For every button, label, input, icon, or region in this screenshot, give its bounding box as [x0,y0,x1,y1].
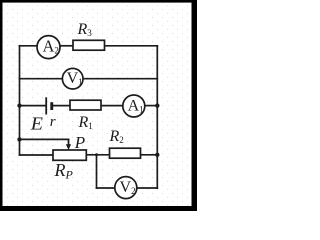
battery E short thick plate [50,102,53,110]
wire row3 bus to battery [20,105,46,107]
ammeter A1 [123,95,145,117]
node dot left bus wiper row [17,137,21,141]
border frame bottom [0,206,197,211]
wire row2 left (bus to V1) [20,78,63,80]
svg-text:P: P [74,133,85,152]
node dot right bus R2 row [155,153,159,157]
ammeter A2 [37,36,60,59]
wire V2 row left [97,187,115,189]
wire V1 to right bus [83,78,157,80]
wire A1 to right bus [145,105,158,107]
node dot right bus A1 row [155,103,159,107]
wire right bus [156,46,158,188]
wire R1 to A1 [101,105,123,107]
wire V2 to right bus [137,187,158,189]
wire R2 to right bus [140,154,157,156]
border frame top [0,0,197,3]
wire wiper horizontal [20,138,69,140]
node dot T junction pot/R2/V2 [95,153,98,156]
voltmeter V1 [62,68,83,89]
svg-text:r: r [50,114,56,130]
wire row1 left (corner to A2) [20,45,38,47]
wire battery to R1 [53,105,70,107]
wire V2 branch vertical [96,155,98,188]
resistor R3 [73,40,105,50]
wire pot to T junction to R2 [86,154,108,156]
wire pot row left [20,154,54,156]
node dot left bus battery row [17,103,21,107]
wire left bus [19,46,21,155]
wire A2 to R3 [60,45,73,47]
resistor R2 [110,148,141,158]
wire R3 to right corner [105,45,158,47]
svg-text:E: E [30,114,43,134]
voltmeter V2 [115,177,137,199]
wire wiper vertical [68,139,70,145]
border frame left [0,0,3,211]
battery E long plate [45,97,47,114]
border frame right [192,0,198,211]
wiper arrowhead P [66,144,71,150]
rheostat RP body [53,150,86,160]
scan speckle texture [3,3,192,206]
resistor R1 [70,100,101,110]
